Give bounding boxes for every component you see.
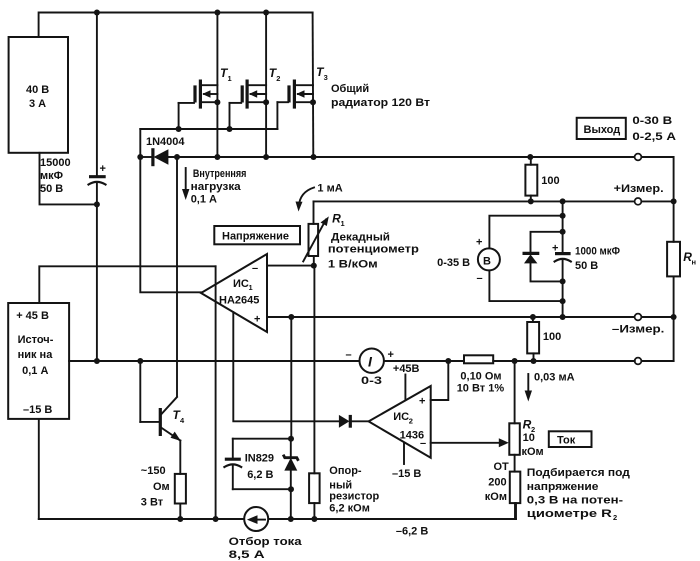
node lineB-x140 (137, 154, 143, 160)
svg-text:0-3: 0-3 (361, 375, 382, 387)
transistor T1 (179, 13, 232, 158)
wire 0.1A line (69, 360, 359, 362)
wire U2 -15V stub (403, 443, 405, 465)
transistor Q4 (140, 361, 185, 441)
svg-text:радиатор 120 Вт: радиатор 120 Вт (331, 97, 431, 109)
label box Выход (577, 118, 626, 139)
svg-text:0,1 А: 0,1 А (191, 194, 217, 206)
wire output line B (+ output bus) (140, 156, 152, 158)
svg-text:кОм: кОм (485, 491, 507, 503)
node lineB-internal load (174, 154, 180, 160)
capacitor C2 1000uF (552, 201, 620, 320)
annotation 0.03 mA arrow (527, 374, 529, 396)
node lineB-R100 top (527, 154, 533, 160)
svg-text:1: 1 (228, 74, 232, 83)
transistor T3 (277, 13, 327, 158)
svg-text:40 В: 40 В (26, 84, 49, 96)
svg-text:10: 10 (523, 432, 535, 444)
wire top positive rail (39, 13, 313, 38)
svg-text:100: 100 (541, 175, 559, 187)
annotation 1 mA curved arrow (299, 188, 314, 207)
node R1 bottom / inv input (311, 263, 317, 269)
svg-text:IN829: IN829 (245, 453, 274, 465)
svg-text:15000: 15000 (40, 157, 71, 169)
svg-text:–: – (346, 349, 352, 361)
svg-text:–Измер.: –Измер. (612, 324, 665, 336)
wire op-amp output / gate drive vertical (140, 129, 201, 292)
svg-text:8,5 А: 8,5 А (229, 549, 265, 561)
svg-text:+: + (100, 163, 106, 175)
op-amp U2 1436 (369, 386, 431, 458)
svg-text:0-2,5 А: 0-2,5 А (632, 131, 676, 143)
svg-text:1 мА: 1 мА (317, 183, 342, 195)
svg-text:+: + (254, 314, 260, 326)
svg-text:0-35 В: 0-35 В (437, 257, 470, 269)
svg-text:Подбирается под: Подбирается под (527, 467, 630, 479)
svg-text:1000 мкФ: 1000 мкФ (575, 246, 620, 258)
svg-text:3 Вт: 3 Вт (141, 497, 164, 509)
resistor 150 Ohm (141, 441, 186, 520)
wire U2 noninv input to shunt (431, 361, 449, 400)
svg-text:нагрузка: нагрузка (191, 181, 242, 193)
node sense-R100 (528, 198, 534, 204)
svg-text:н: н (692, 258, 697, 267)
wire bottom negative bus (39, 518, 244, 520)
terminal output plus (635, 154, 642, 161)
svg-text:ОТ: ОТ (494, 461, 510, 473)
source box 45V/0.1A/-15V (8, 303, 69, 419)
svg-text:0,3 В на потен-: 0,3 В на потен- (527, 495, 624, 507)
svg-text:~150: ~150 (141, 465, 166, 477)
svg-text:Выход: Выход (584, 124, 621, 136)
resistor reference 6.2k (309, 266, 379, 519)
svg-text:мкФ: мкФ (40, 170, 63, 182)
wire C1 down to 0.1A line (96, 204, 98, 361)
svg-text:кОм: кОм (522, 446, 544, 458)
svg-text:10 Вт 1%: 10 Вт 1% (457, 383, 505, 395)
svg-text:–15 В: –15 В (23, 404, 52, 416)
resistor 200k trim (485, 461, 521, 519)
svg-text:резистор: резистор (329, 491, 379, 503)
resistor R100 bottom (527, 314, 561, 364)
node rail-T1 drain (214, 10, 220, 16)
node lineB-T2 source (263, 154, 269, 160)
wire internal load path (176, 157, 178, 397)
svg-text:+: + (476, 237, 482, 249)
potentiometer R2 (509, 358, 543, 472)
label box Tok (549, 431, 592, 447)
node rail-C1 (94, 10, 100, 16)
wire feedback from source divider (39, 266, 215, 303)
wire U2 +45V stub (404, 375, 406, 400)
svg-text:1 В/кОм: 1 В/кОм (328, 259, 378, 271)
wire zener to bus (290, 489, 292, 519)
label box Напряжение (214, 226, 300, 244)
svg-text:6,2 В: 6,2 В (247, 469, 273, 481)
transistor T2 (230, 13, 281, 158)
svg-text:–15 В: –15 В (392, 468, 421, 480)
svg-text:Декадный: Декадный (331, 232, 390, 244)
wire U1 inverting input to R1 (267, 265, 314, 267)
ammeter I 0-3 (346, 349, 394, 388)
wire U2 inv input to R2 wiper (431, 442, 501, 444)
svg-text:+: + (388, 349, 394, 361)
svg-text:НА2645: НА2645 (219, 295, 259, 307)
svg-text:1: 1 (341, 219, 345, 228)
diode 1N4004 (151, 148, 154, 166)
svg-text:200: 200 (488, 477, 506, 489)
capacitor C1 15000uF (96, 13, 98, 177)
svg-text:0-30 В: 0-30 В (632, 115, 672, 127)
svg-text:100: 100 (543, 331, 561, 343)
node gate bus T1 (176, 126, 182, 132)
voltmeter branch (437, 213, 565, 304)
current source circle Отбор тока (229, 507, 303, 561)
annotation internal load arrow (185, 168, 187, 196)
potentiometer R1 decade (303, 201, 344, 265)
node C1 bottom junction (94, 201, 100, 207)
svg-text:Опор-: Опор- (329, 465, 362, 477)
svg-text:Общий: Общий (331, 83, 369, 95)
node +input zener ref (288, 314, 294, 320)
svg-text:2: 2 (276, 74, 280, 83)
svg-text:1N4004: 1N4004 (146, 136, 185, 148)
diode D2 to U2 output (339, 415, 350, 428)
svg-text:потенциометр: потенциометр (328, 244, 419, 256)
svg-text:6,2 кОм: 6,2 кОм (329, 503, 370, 515)
svg-text:1: 1 (249, 283, 253, 292)
node lineB-T1 source (214, 154, 220, 160)
resistor R100 top (525, 157, 559, 201)
svg-text:ник на: ник на (18, 349, 54, 361)
wire right rail + load (641, 157, 673, 242)
zener diode VD1 (290, 439, 292, 458)
wire +input drop to D2 (233, 312, 339, 421)
svg-text:Источ-: Источ- (18, 334, 54, 346)
diode D3 protection (523, 229, 566, 285)
wire gate bus (140, 128, 277, 130)
svg-text:+45В: +45В (393, 363, 420, 375)
svg-text:ИС: ИС (393, 411, 409, 423)
svg-text:Внутренняя: Внутренняя (193, 168, 247, 180)
svg-text:2: 2 (613, 513, 617, 522)
node sense-voltmeter bus (560, 198, 566, 204)
svg-text:+: + (552, 243, 558, 255)
wire long vertical through U1 to bottom bus (215, 266, 217, 519)
svg-text:–: – (252, 263, 258, 275)
source box 40V 3A (9, 37, 68, 153)
resistor shunt 0.10 Ohm (464, 355, 493, 363)
svg-text:Ом: Ом (153, 481, 170, 493)
svg-text:3: 3 (324, 73, 328, 82)
svg-text:0,10 Ом: 0,10 Ом (460, 371, 501, 383)
svg-text:Напряжение: Напряжение (222, 231, 289, 243)
wire -15V drop (38, 419, 40, 519)
svg-text:ИС: ИС (233, 278, 249, 290)
resistor Rn load (667, 242, 680, 277)
wire U1 noninv input / -sense line (267, 316, 635, 318)
svg-text:напряжение: напряжение (527, 481, 599, 493)
svg-text:В: В (483, 256, 491, 268)
svg-text:3 А: 3 А (29, 98, 46, 110)
svg-text:2: 2 (409, 417, 413, 426)
zener module 1N829 with cap (224, 317, 298, 492)
svg-text:0,1 А: 0,1 А (22, 365, 48, 377)
node lineB-T3 source (311, 154, 317, 160)
svg-text:–: – (477, 273, 483, 285)
svg-text:0,03 мА: 0,03 мА (534, 372, 575, 384)
op-amp U1 HA2645 (201, 254, 267, 332)
svg-text:Ток: Ток (557, 435, 576, 447)
svg-text:+ 45 В: + 45 В (16, 310, 49, 322)
svg-text:циометре R: циометре R (527, 508, 612, 520)
svg-text:–: – (420, 438, 426, 450)
svg-text:+: + (419, 396, 425, 408)
terminal -sense (635, 314, 642, 321)
node gate bus T2 (227, 126, 233, 132)
svg-text:50 В: 50 В (575, 260, 598, 272)
svg-text:+Измер.: +Измер. (614, 183, 664, 195)
terminal +sense (635, 198, 642, 205)
svg-text:Отбор тока: Отбор тока (229, 536, 303, 548)
svg-text:–6,2 В: –6,2 В (396, 526, 428, 538)
wire +sense line (314, 200, 635, 202)
terminal output minus (635, 358, 642, 365)
node rail-T2 drain (263, 10, 269, 16)
svg-text:50 В: 50 В (40, 183, 63, 195)
wire 40V box bottom to C1 junction (40, 153, 97, 205)
